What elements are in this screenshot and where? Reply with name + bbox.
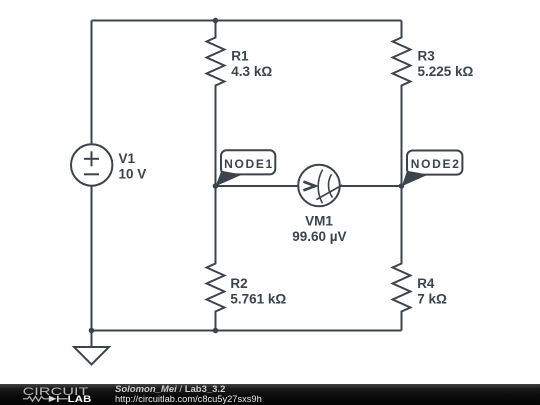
svg-text:R3: R3 [418, 48, 436, 63]
svg-text:NODE1: NODE1 [224, 157, 274, 171]
svg-text:7 kΩ: 7 kΩ [417, 291, 447, 306]
svg-text:99.60 µV: 99.60 µV [292, 229, 346, 244]
svg-text:R2: R2 [230, 276, 247, 291]
svg-text:NODE2: NODE2 [411, 157, 461, 171]
svg-text:http://circuitlab.com/c8cu5y27: http://circuitlab.com/c8cu5y27sxs9h [115, 394, 262, 404]
svg-text:R1: R1 [231, 48, 249, 63]
svg-text:VM1: VM1 [305, 213, 333, 228]
svg-text:R4: R4 [417, 276, 435, 291]
svg-text:5.225 kΩ: 5.225 kΩ [418, 64, 474, 79]
svg-text:LAB: LAB [68, 395, 92, 405]
svg-text:V1: V1 [119, 151, 136, 166]
svg-text:4.3 kΩ: 4.3 kΩ [231, 64, 272, 79]
svg-text:10 V: 10 V [119, 166, 147, 181]
svg-text:5.761 kΩ: 5.761 kΩ [230, 291, 286, 306]
